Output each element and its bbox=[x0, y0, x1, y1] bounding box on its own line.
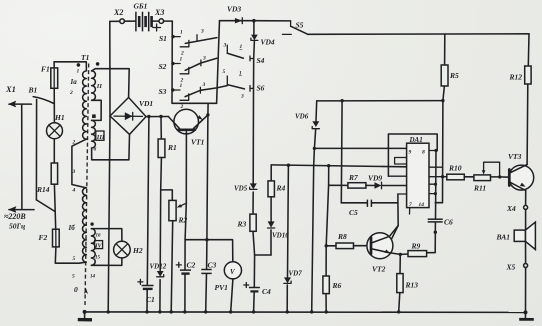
svg-text:C2: C2 bbox=[187, 261, 196, 270]
capacitor C5 bbox=[349, 200, 371, 217]
junction dot bus C3 bbox=[205, 238, 208, 241]
DA1 right pin stubs bbox=[429, 149, 447, 195]
svg-text:14: 14 bbox=[419, 202, 425, 208]
secondary III bottom wire to bridge bbox=[92, 134, 130, 159]
junction dot R13 top bbox=[399, 253, 402, 256]
loudspeaker BA1 bbox=[496, 222, 536, 249]
wire VD3 S-switch feed column bbox=[217, 21, 220, 104]
resistor R7 bbox=[329, 173, 366, 188]
svg-text:X1: X1 bbox=[5, 84, 16, 94]
DA1 left pin stubs bbox=[388, 158, 409, 240]
svg-text:III: III bbox=[96, 134, 105, 141]
svg-text:X3: X3 bbox=[154, 8, 164, 17]
svg-text:PV1: PV1 bbox=[215, 283, 228, 292]
capacitor C1 bbox=[138, 279, 155, 304]
svg-text:3: 3 bbox=[202, 82, 206, 88]
svg-text:VT3: VT3 bbox=[508, 152, 522, 161]
connector X1 plug prong arrow lower bbox=[8, 206, 34, 213]
svg-text:6: 6 bbox=[94, 147, 97, 153]
svg-text:S4: S4 bbox=[257, 56, 265, 65]
wire mains lead left vertical bbox=[21, 104, 23, 209]
resistor R4 column bbox=[268, 165, 286, 255]
svg-text:8: 8 bbox=[422, 150, 425, 156]
transformer primary winding Ib arcs bbox=[83, 188, 87, 262]
svg-text:R9: R9 bbox=[411, 242, 421, 251]
svg-text:DA1: DA1 bbox=[409, 136, 423, 144]
svg-text:S5: S5 bbox=[296, 21, 304, 30]
terminal X5 bbox=[506, 241, 528, 312]
transformer primary winding Ia arcs bbox=[83, 71, 87, 139]
capacitor C2 bbox=[176, 261, 195, 274]
svg-text:F1: F1 bbox=[41, 65, 50, 74]
capacitor C3 bbox=[201, 261, 216, 274]
phase dot secondary III (square) bbox=[92, 114, 96, 118]
svg-text:2: 2 bbox=[72, 140, 76, 146]
svg-text:1: 1 bbox=[240, 44, 243, 50]
phase dot primary bbox=[77, 63, 81, 67]
ground symbol right bbox=[519, 312, 534, 319]
svg-text:C5: C5 bbox=[349, 208, 358, 217]
junction dot R8 row bbox=[325, 244, 328, 247]
svg-text:R8: R8 bbox=[337, 232, 347, 241]
zener VD4 bbox=[251, 35, 275, 47]
wire F1 top to transformer primary bbox=[54, 62, 86, 71]
svg-text:R4: R4 bbox=[276, 184, 286, 193]
svg-text:Iа: Iа bbox=[70, 78, 78, 86]
switch S4 bbox=[223, 43, 265, 66]
phase dot secondary IV bbox=[90, 222, 93, 225]
junction dot R6 column top bbox=[327, 164, 330, 167]
svg-text:VD12: VD12 bbox=[150, 263, 167, 271]
svg-text:R10: R10 bbox=[448, 164, 462, 173]
junction dot R5 bottom bbox=[441, 99, 444, 102]
svg-text:H2: H2 bbox=[132, 246, 143, 255]
switch S3 bbox=[159, 82, 228, 110]
svg-text:VD1: VD1 bbox=[139, 99, 153, 108]
switch S6 bbox=[223, 69, 265, 100]
svg-text:C1: C1 bbox=[146, 295, 155, 304]
svg-text:S2: S2 bbox=[159, 62, 167, 71]
lamp H1 bbox=[47, 103, 65, 163]
svg-text:R1: R1 bbox=[167, 143, 177, 152]
svg-text:3: 3 bbox=[240, 94, 244, 100]
battery GB1 bbox=[134, 2, 161, 32]
connector X1 plug prong arrow upper bbox=[5, 84, 31, 107]
ground rail bbox=[85, 311, 526, 314]
wire bridge output row bbox=[146, 116, 168, 118]
switch S2 bbox=[159, 56, 217, 84]
junction dot pin9 row bbox=[313, 147, 316, 150]
wire top rail right (S5 to R12 corner) bbox=[308, 33, 529, 36]
svg-text:R14: R14 bbox=[36, 185, 50, 194]
junction dot VD7 column top bbox=[287, 164, 290, 167]
wire X3 column down (S1 S2 S3 column) bbox=[172, 21, 217, 103]
junction dot R1 column top bbox=[159, 115, 162, 118]
junction dot VT1 to C3 column bbox=[206, 113, 209, 116]
svg-text:C4: C4 bbox=[262, 287, 271, 296]
resistor R14 bbox=[36, 163, 58, 194]
svg-text:S6: S6 bbox=[257, 84, 265, 93]
secondary II-III jog bbox=[92, 100, 102, 120]
svg-text:4: 4 bbox=[72, 188, 76, 194]
IC DA1 bbox=[407, 136, 429, 208]
zener VD6 and its column bbox=[295, 101, 319, 312]
wire C5 left leg bbox=[340, 101, 343, 203]
svg-text:IV: IV bbox=[94, 244, 102, 250]
label ~220V 50Hz bbox=[4, 212, 26, 231]
wire winding IV top to lamp H2 bbox=[91, 229, 122, 242]
svg-text:ВА1: ВА1 bbox=[496, 233, 510, 242]
wire R14 to F2 bbox=[54, 184, 55, 229]
svg-text:X2: X2 bbox=[113, 8, 123, 17]
resistor R2 (preset) bbox=[161, 190, 188, 312]
wire VT1 base down bbox=[185, 130, 187, 312]
svg-text:15: 15 bbox=[95, 256, 101, 261]
lamp H2 bbox=[114, 241, 143, 258]
svg-text:H1: H1 bbox=[54, 113, 65, 122]
svg-text:16: 16 bbox=[96, 234, 102, 239]
resistor R10 bbox=[447, 164, 474, 180]
resistor R8 bbox=[326, 232, 371, 249]
secondary II top hook and wire to bridge bbox=[92, 69, 130, 98]
DA1 top feedback box bbox=[388, 134, 437, 176]
svg-text:VD4: VD4 bbox=[261, 38, 275, 47]
junction node VD3 cathode bbox=[252, 19, 256, 23]
junction dot VT3 base bbox=[498, 175, 501, 178]
transformer secondary III arcs bbox=[92, 120, 96, 148]
svg-text:VT2: VT2 bbox=[372, 265, 386, 274]
fuse F2 bbox=[39, 229, 60, 247]
phase dot secondary II bbox=[96, 62, 100, 66]
junction dot C5 leg top bbox=[340, 99, 343, 102]
svg-text:R5: R5 bbox=[449, 71, 459, 80]
svg-text:VD16: VD16 bbox=[272, 232, 289, 240]
wire R5 extension down through R10 row bbox=[435, 101, 443, 203]
resistor R9 bbox=[400, 242, 426, 257]
transistor VT2 bbox=[367, 226, 400, 274]
R2 wiper arrow from VT1 base bbox=[177, 203, 187, 207]
rail junction dots bbox=[83, 310, 528, 315]
svg-text:3: 3 bbox=[200, 29, 204, 35]
junction dot C6 bottom node bbox=[434, 231, 437, 234]
wire C5 row bbox=[341, 202, 398, 204]
diode VD9 bbox=[366, 174, 407, 189]
junction dot C1 column top bbox=[147, 115, 150, 118]
svg-text:0: 0 bbox=[74, 285, 78, 294]
transformer secondary II arcs bbox=[92, 71, 96, 100]
svg-text:VD3: VD3 bbox=[227, 5, 241, 14]
transistor VT3 bbox=[500, 152, 534, 191]
svg-text:R7: R7 bbox=[348, 173, 358, 182]
svg-text:≈220В: ≈220В bbox=[4, 212, 26, 221]
bridge rectifier VD1 bbox=[110, 97, 153, 134]
svg-text:1: 1 bbox=[180, 83, 183, 89]
label III boxed bbox=[96, 131, 105, 141]
svg-text:5: 5 bbox=[223, 69, 226, 75]
wire S4 S6 column (VD4 down to VD5 R3 C4) bbox=[253, 21, 255, 312]
svg-text:Iб: Iб bbox=[68, 224, 76, 232]
resistor R13 bbox=[397, 254, 418, 312]
resistor R11 (preset with bracket) bbox=[473, 162, 500, 192]
svg-text:II: II bbox=[96, 83, 103, 90]
svg-text:R11: R11 bbox=[473, 184, 486, 193]
label IV boxed bbox=[94, 241, 102, 250]
resistor R12 bbox=[509, 34, 532, 165]
svg-text:R12: R12 bbox=[509, 73, 523, 82]
svg-text:2: 2 bbox=[69, 90, 73, 96]
svg-text:В1: В1 bbox=[28, 86, 38, 95]
ground symbol left bbox=[78, 312, 92, 320]
core arrow tick bbox=[84, 288, 88, 294]
svg-text:S3: S3 bbox=[159, 87, 167, 96]
capacitor C1 column bbox=[147, 117, 149, 312]
svg-text:3: 3 bbox=[72, 169, 76, 175]
svg-text:R6: R6 bbox=[332, 281, 342, 290]
primary terminal digits bbox=[69, 69, 80, 280]
svg-text:S1: S1 bbox=[159, 34, 167, 43]
resistor R1 bbox=[158, 117, 177, 158]
terminal X3 bbox=[152, 8, 173, 23]
capacitor C4 bbox=[244, 283, 271, 297]
svg-text:5: 5 bbox=[73, 256, 76, 262]
svg-text:VD5: VD5 bbox=[234, 185, 248, 193]
svg-text:14: 14 bbox=[90, 275, 96, 280]
fuse F1 bbox=[41, 62, 58, 104]
wire F2 bottom to primary winding bottom bbox=[55, 247, 86, 263]
terminal X4 bbox=[506, 191, 528, 231]
svg-text:1: 1 bbox=[180, 57, 183, 63]
primary tap jumper bracket bbox=[72, 139, 87, 188]
svg-text:3: 3 bbox=[223, 43, 227, 49]
capacitor C6 bbox=[428, 218, 453, 227]
svg-text:C6: C6 bbox=[444, 218, 453, 227]
diode VD3 bbox=[220, 5, 254, 24]
svg-text:C3: C3 bbox=[208, 261, 217, 270]
switch S1 bbox=[159, 29, 217, 57]
diode VD16 bbox=[268, 221, 290, 239]
svg-text:50Гц: 50Гц bbox=[9, 222, 25, 231]
wire X2 column down to bridge and ground rail bbox=[108, 21, 110, 312]
svg-text:X4: X4 bbox=[506, 204, 516, 213]
transformer secondary IV arcs bbox=[91, 229, 95, 266]
svg-text:VT1: VT1 bbox=[191, 138, 204, 147]
transformer T1 core (dashed) bbox=[85, 64, 89, 306]
terminal X2 bbox=[110, 8, 136, 24]
zener VD12 bbox=[150, 263, 167, 277]
wire feedback row (R4 corner to DA1) bbox=[271, 165, 406, 167]
wire R3 bottom corner to VD16 bottom bbox=[255, 254, 271, 256]
svg-text:3: 3 bbox=[202, 56, 206, 62]
resistor R3 bbox=[237, 214, 257, 231]
svg-text:1: 1 bbox=[77, 69, 80, 75]
svg-text:5: 5 bbox=[72, 274, 75, 280]
svg-text:T1: T1 bbox=[81, 53, 89, 62]
voltmeter PV1 bbox=[215, 262, 242, 312]
svg-text:GБ1: GБ1 bbox=[134, 2, 148, 11]
svg-text:F2: F2 bbox=[39, 233, 48, 242]
svg-text:X5: X5 bbox=[506, 263, 516, 272]
output bus row (C2 C3 PV1) bbox=[185, 240, 233, 262]
wire mains lead right vertical bbox=[35, 99, 37, 199]
zener VD5 bbox=[234, 183, 257, 192]
switch B1 pole 2 lever bbox=[36, 200, 55, 212]
wire VT1 collector drop / C3 column bbox=[206, 103, 208, 312]
wire lamp H2 bottom to winding IV bottom bbox=[91, 258, 122, 266]
svg-text:VD9: VD9 bbox=[368, 174, 382, 183]
svg-text:R13: R13 bbox=[405, 281, 419, 290]
svg-text:R3: R3 bbox=[237, 220, 247, 229]
switch B1 pole 1 bbox=[28, 86, 54, 104]
svg-text:1: 1 bbox=[180, 30, 183, 36]
junction dot R10 row bbox=[441, 175, 444, 178]
switch S5 bbox=[254, 21, 308, 35]
svg-text:VD6: VD6 bbox=[295, 113, 309, 121]
svg-text:1: 1 bbox=[239, 71, 242, 77]
wire R1 bottom to R2 and VD12 column bbox=[160, 158, 162, 312]
wire DA1 right vertical chain to C6 and R9 bbox=[427, 151, 436, 253]
resistor R5 bbox=[441, 34, 459, 101]
svg-text:VD7: VD7 bbox=[289, 270, 303, 278]
resistor R6 column bbox=[323, 166, 342, 312]
transistor VT1 bbox=[168, 109, 208, 146]
svg-text:9: 9 bbox=[409, 150, 412, 156]
secondary IV terminal digits bbox=[90, 234, 101, 280]
wire pin9 row to DA1 bbox=[314, 147, 406, 149]
zener VD7 column bbox=[284, 165, 302, 312]
wire row VD6 to R5 bbox=[317, 100, 443, 102]
